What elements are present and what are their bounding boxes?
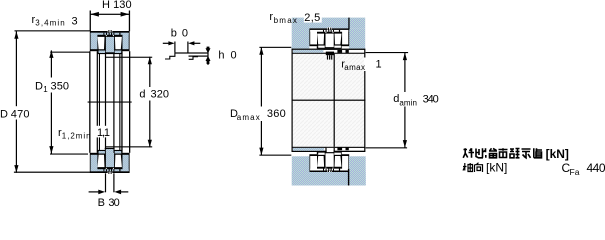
shaft left edge line — [292, 49, 293, 152]
dimension D line lower — [16, 120, 17, 173]
svg-text:amax: amax — [344, 63, 365, 72]
washer corner marks bottom — [337, 147, 342, 150]
dimension Damax line lower — [261, 121, 262, 155]
shaft washer right line — [113, 54, 114, 153]
svg-text:1,1: 1,1 — [97, 127, 110, 139]
dimension h arrow bottom — [206, 56, 211, 61]
dimension D arrow top — [14, 31, 18, 39]
detail ring lower line — [189, 56, 208, 57]
detail right step profile — [189, 57, 198, 60]
shaft washer left line — [105, 54, 106, 153]
glyph zhi — [534, 148, 543, 158]
dimension D arrow bottom — [14, 165, 18, 173]
OD left line — [89, 51, 90, 153]
svg-text:H 130: H 130 — [102, 0, 132, 11]
shaft right edge line lower — [364, 71, 365, 152]
shaft step line middle — [334, 54, 335, 147]
shaft right edge line upper — [364, 49, 365, 58]
washer corner marks top — [337, 50, 342, 53]
svg-text:B: B — [98, 197, 105, 208]
glyph xiang — [475, 163, 483, 172]
dimension damin arrow top — [403, 53, 407, 61]
shaft hatch left part — [292, 156, 310, 185]
dimension b arrow right — [188, 41, 194, 45]
bore line bottom — [106, 146, 153, 147]
dimension D1 extension top — [50, 52, 89, 53]
glyph fu — [489, 148, 497, 158]
svg-text:h: h — [218, 50, 224, 62]
svg-text:3,4min: 3,4min — [35, 19, 64, 28]
dimension D line upper — [16, 31, 17, 106]
svg-text:[kN]: [kN] — [486, 161, 507, 175]
dimension b arrow left — [168, 41, 174, 45]
shaft hatch right part — [349, 156, 366, 185]
dimension D extension top — [15, 30, 90, 31]
dimension damin extension bottom — [366, 147, 408, 148]
svg-text:30: 30 — [108, 197, 119, 208]
svg-text:350: 350 — [51, 81, 70, 93]
dimension Damax arrow top — [259, 47, 263, 55]
svg-text:2,5: 2,5 — [304, 12, 320, 24]
svg-text:D: D — [0, 109, 8, 121]
washer face line A bottom — [292, 151, 365, 152]
shaft washer protrusion bottom — [105, 148, 115, 149]
dimension Damax extension bottom — [259, 155, 291, 156]
washer protrusion bottom center — [327, 148, 334, 152]
dimension H arrow right — [121, 12, 130, 17]
dimension damin line upper — [404, 53, 405, 92]
washer face line B top — [292, 53, 365, 54]
svg-text:0: 0 — [231, 50, 237, 62]
glyph zhou — [463, 163, 473, 172]
svg-text:340: 340 — [423, 93, 439, 105]
detail b left wall — [174, 42, 175, 53]
dimension B extension right — [113, 173, 114, 192]
dimension B arrow left — [98, 190, 105, 195]
snap ring detail top — [326, 52, 334, 56]
dimension d line upper — [149, 57, 150, 87]
housing bore line — [348, 18, 349, 30]
detail left step profile — [165, 53, 175, 59]
glyph bi — [476, 148, 486, 158]
seat strip hatch bottom — [293, 148, 324, 151]
dimension D1 line upper — [51, 50, 52, 77]
bearing section bottom band — [90, 150, 130, 174]
housing hatch left part — [292, 18, 310, 49]
detail b right wall — [187, 42, 188, 54]
svg-text:bmax: bmax — [274, 16, 297, 25]
shaft hatch bottom part — [292, 172, 366, 186]
dimension D extension bottom — [14, 172, 91, 173]
svg-text:320: 320 — [151, 89, 170, 101]
dimension h extension line — [207, 47, 208, 65]
heading line glyphs — [463, 148, 542, 158]
dimension B extension left — [105, 173, 106, 192]
dimension Damax arrow bottom — [259, 148, 263, 156]
dimension H arrow left — [90, 12, 99, 17]
svg-text:amin: amin — [399, 99, 417, 108]
label r1,2min 1,1 — [96, 126, 112, 138]
dimension Damax line upper — [261, 47, 262, 106]
centerline — [88, 102, 132, 103]
bearing outline band top (in housing) — [309, 27, 349, 48]
washer edge line b — [99, 54, 100, 150]
svg-text:D: D — [35, 81, 43, 93]
dimension damin line lower — [404, 107, 405, 148]
axial line glyphs — [463, 163, 483, 172]
glyph ding — [522, 149, 531, 158]
bearing section top band — [90, 30, 130, 54]
washer edge line a — [97, 51, 98, 153]
svg-text:0: 0 — [182, 28, 188, 40]
shaft step line bottom — [348, 169, 349, 186]
dimension D1 extension bottom — [50, 154, 88, 155]
washer face line A top — [292, 49, 365, 50]
svg-text:b: b — [171, 28, 177, 40]
bearing outline band bottom (on shaft) — [309, 152, 349, 173]
dimension B arrow right — [114, 190, 121, 195]
OD right line — [129, 51, 130, 153]
dimension h arrow top — [206, 48, 211, 53]
washer face line B bottom — [292, 147, 365, 148]
svg-text:1: 1 — [376, 59, 382, 71]
svg-text:360: 360 — [267, 108, 286, 120]
housing hatch top part — [309, 18, 365, 29]
dimension H extension right — [129, 11, 130, 32]
svg-text:3: 3 — [72, 16, 78, 28]
glyph dui — [463, 148, 474, 158]
dimension D1 line lower — [51, 93, 52, 154]
dimension H line — [90, 14, 129, 15]
washer edge line c — [119, 54, 120, 150]
dimension d arrow top — [148, 57, 152, 65]
dimension d arrow bottom — [148, 140, 152, 148]
dimension damin extension top — [366, 52, 409, 53]
svg-text:1,2min: 1,2min — [62, 132, 91, 141]
dimension d line lower — [149, 101, 150, 148]
dimension damin arrow bottom — [403, 140, 407, 148]
washer edge line d — [121, 51, 122, 153]
svg-text:amax: amax — [237, 113, 260, 122]
middle shaft light hatch — [293, 54, 365, 147]
bore line top — [106, 57, 153, 58]
dimension D1 arrow top — [49, 50, 53, 58]
svg-text:[kN]: [kN] — [546, 147, 569, 161]
svg-text:470: 470 — [11, 109, 30, 121]
housing hatch right part — [349, 28, 365, 48]
glyph e — [510, 148, 520, 158]
svg-text:440: 440 — [587, 161, 605, 175]
detail surface line — [175, 52, 208, 53]
shaft mid horizontal line — [292, 100, 366, 101]
svg-text:d: d — [139, 89, 145, 101]
svg-text:Fa: Fa — [570, 167, 580, 177]
glyph he — [499, 148, 508, 158]
dimension D1 arrow bottom — [49, 146, 53, 154]
seat strip hatch top — [293, 50, 324, 53]
svg-text:1: 1 — [43, 85, 48, 94]
dimension Damax extension top — [259, 47, 291, 48]
dimension H extension left — [90, 11, 91, 32]
